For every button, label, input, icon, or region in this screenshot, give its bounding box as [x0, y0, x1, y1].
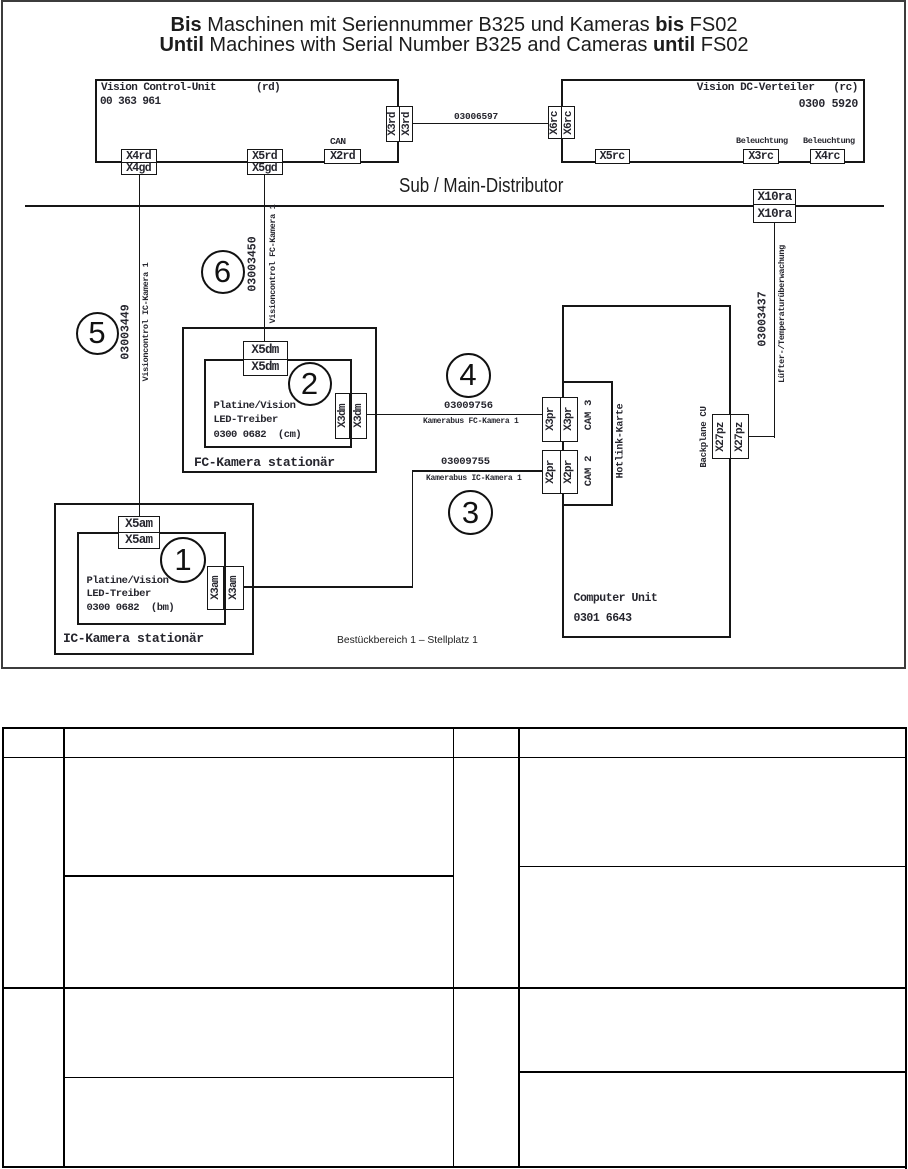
wire 03009756 horizontal [367, 414, 543, 416]
label CAN [330, 136, 346, 147]
connector X5am top [118, 516, 161, 534]
connector X2rd [324, 149, 361, 165]
label (rd) [256, 82, 280, 94]
connector X27pz pair [712, 414, 732, 459]
table col4 row split lower [518, 1071, 906, 1073]
table mid line [2, 987, 906, 989]
table header bottom line [2, 757, 906, 759]
connector X5rc [595, 149, 630, 164]
box FC-Kamera stationaer [182, 327, 377, 473]
label 03009756 [444, 400, 493, 412]
connector X3dm pair [335, 393, 350, 439]
label 00 363 961 [100, 96, 161, 108]
label Vision Control-Unit [101, 82, 216, 94]
label Visioncontrol FC-Kamera 1 [268, 205, 278, 324]
label 0300 0682 (cm) [214, 429, 302, 441]
connector X3rc [743, 149, 780, 164]
connector X3pr pair [542, 397, 561, 442]
label Vision DC-Verteiler (rc) [0, 82, 858, 94]
connector X4rc [810, 149, 846, 164]
label Hotlink-Karte [615, 404, 626, 479]
label Beleuchtung 2 [803, 136, 855, 146]
connector X5rd [247, 149, 283, 165]
box IC-Kamera stationaer [54, 503, 254, 655]
table vertical col1/col2 [63, 727, 65, 1168]
wire 03003437 vertical [774, 223, 776, 438]
label 03009755 [441, 456, 490, 468]
circle 1 [160, 537, 206, 583]
label Sub / Main-Distributor [399, 175, 563, 198]
label Platine/Vision (cm) [214, 400, 296, 412]
table col4 row split upper [518, 866, 906, 868]
table top border [2, 727, 906, 729]
box Vision DC-Verteiler (rc) [561, 79, 865, 163]
label FC-Kamera stationaer [194, 455, 335, 470]
box Computer Unit [562, 305, 732, 638]
title line 1 [0, 14, 908, 37]
table vertical col3/col4 [518, 727, 520, 1168]
circle 2 [288, 362, 332, 406]
table vertical col2/col3 [453, 727, 455, 1168]
label CAM 2 [583, 456, 595, 487]
connector X5am bottom [118, 532, 161, 550]
wire 03003449 vertical [139, 174, 141, 517]
label Computer Unit [574, 592, 658, 605]
wire 03003437 horizontal [749, 436, 775, 438]
label LED-Treiber (cm) [214, 414, 278, 426]
label 0300 5920 [0, 98, 858, 111]
table col2 row split upper [63, 875, 454, 877]
title line 2 [0, 34, 908, 57]
wire 03009755 vertical [412, 470, 414, 588]
connector X4rd [121, 149, 157, 165]
connector X10ra top [753, 189, 796, 207]
label 03003437 [757, 291, 770, 346]
label 0300 0682 (bm) [87, 602, 175, 614]
connector X5gd [247, 162, 283, 175]
label Beleuchtung 1 [736, 136, 788, 146]
label 0301 6643 [574, 612, 632, 625]
box Platine/Vision LED-Treiber (cm) [204, 359, 352, 448]
connector X2pr pair [542, 450, 561, 495]
label CAM 3 [583, 400, 595, 431]
wire 03003450 vertical [264, 174, 266, 341]
frame border of diagram [1, 0, 906, 669]
connector X3rd pair [386, 106, 400, 142]
table left border [2, 727, 4, 1168]
connector X6rc pair [548, 106, 562, 139]
label LED-Treiber (bm) [87, 588, 151, 600]
connector X10ra bottom [753, 204, 796, 223]
table bottom border [2, 1166, 906, 1168]
wire main distributor line [25, 205, 884, 207]
label IC-Kamera stationaer [63, 631, 204, 646]
connector X5dm bottom [243, 359, 288, 376]
label Backplane CU [699, 406, 709, 467]
label Kamerabus FC-Kamera 1 [423, 417, 519, 426]
circle 6 [201, 250, 245, 294]
label Luefter-/Temperaturueberwachung [777, 245, 787, 383]
box Vision Control-Unit (rd) [95, 79, 399, 163]
label 03003449 [120, 304, 133, 359]
table col2 row split lower [63, 1077, 454, 1079]
label 03003450 [247, 236, 260, 291]
wire 03009755 lower horizontal [243, 586, 413, 588]
wire 03006597 [413, 123, 548, 125]
circle 4 [446, 353, 491, 398]
table right border [905, 727, 907, 1169]
connector X4gd [121, 162, 157, 175]
label Visioncontrol IC-Kamera 1 [141, 263, 151, 382]
box Hotlink-Karte [562, 381, 614, 506]
label 03006597 [454, 111, 498, 122]
label Platine/Vision (bm) [87, 575, 169, 587]
label Kamerabus IC-Kamera 1 [426, 474, 522, 483]
connector X3am pair [207, 566, 224, 610]
wire 03009755 horizontal [412, 470, 543, 472]
circle 5 [76, 312, 119, 355]
circle 3 [448, 490, 493, 535]
connector X5dm top [243, 341, 288, 361]
label Bestueckbereich [337, 635, 478, 646]
box Platine/Vision LED-Treiber (bm) [77, 532, 226, 626]
